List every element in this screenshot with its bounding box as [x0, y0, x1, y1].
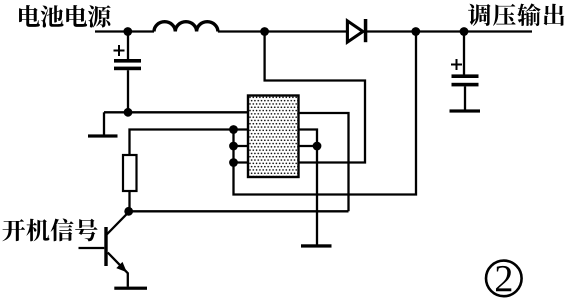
capacitor C1 (input electrolytic): [127, 32, 129, 60]
IC left pin stubs: [234, 130, 249, 163]
wire: feedback loop rail junction to IC right top (via 365): [265, 32, 365, 163]
op-amp / regulator IC U1 (hatched body): [248, 96, 299, 178]
wire: resistor bottom to transistor collector node: [128, 191, 130, 211]
node: IC right sense dot: [313, 142, 322, 151]
node: C1 negative / ground / IC pin1 junction: [124, 108, 133, 117]
wire: transistor collector run to switch vertical: [130, 210, 349, 212]
label: battery input 电池电源: [19, 5, 111, 28]
ground (left, near C1): [103, 112, 105, 134]
node: rail junction at input cap: [123, 27, 132, 36]
capacitor C2 (output electrolytic): [463, 32, 465, 75]
figure number ②: [486, 261, 522, 297]
transistor Q1 (NPN) collector lead: [107, 212, 129, 235]
node: IC pin 4 dot: [229, 158, 238, 167]
wire: IC right pins to sense node dot: [299, 130, 318, 147]
Q1 base bar: [104, 227, 107, 266]
C1 polarity plus sign: [114, 45, 125, 56]
node: collector / resistor junction: [124, 207, 133, 216]
node: IC pin 2 dot: [229, 125, 238, 134]
wire: IC pin 2 to resistor top: [130, 130, 234, 156]
node: IC pin 3 dot: [229, 142, 238, 151]
wire: sense node down to ground: [316, 146, 318, 245]
inductor L1: [154, 22, 218, 32]
wire: top rail from battery input to output: [95, 30, 532, 32]
node: rail junction at feedback loop: [260, 27, 269, 36]
ground (right, below C2): [450, 109, 481, 112]
resistor R1: [123, 155, 137, 191]
wire: junction to left ground and to IC pin 1: [104, 111, 248, 113]
C2 polarity plus sign: [451, 59, 462, 70]
node: rail junction at output cap: [460, 27, 469, 36]
Q1 emitter arrowhead: [116, 262, 127, 272]
diode D1: [347, 21, 363, 42]
ground (bottom, at Q1 emitter): [114, 287, 147, 290]
Q1 emitter lead: [108, 253, 128, 287]
ground (center, below IC): [301, 244, 332, 247]
label: power-on signal 开机信号: [2, 219, 97, 242]
wire: IC right pin to switch node vertical (348.5): [299, 113, 349, 211]
wire: bus joining pins 2-4 down to bottom feedback run: [234, 32, 417, 195]
Q1 base lead (from 开机信号): [79, 247, 105, 249]
label: regulated output 调压输出: [468, 3, 564, 26]
node: rail junction after diode: [411, 27, 420, 36]
